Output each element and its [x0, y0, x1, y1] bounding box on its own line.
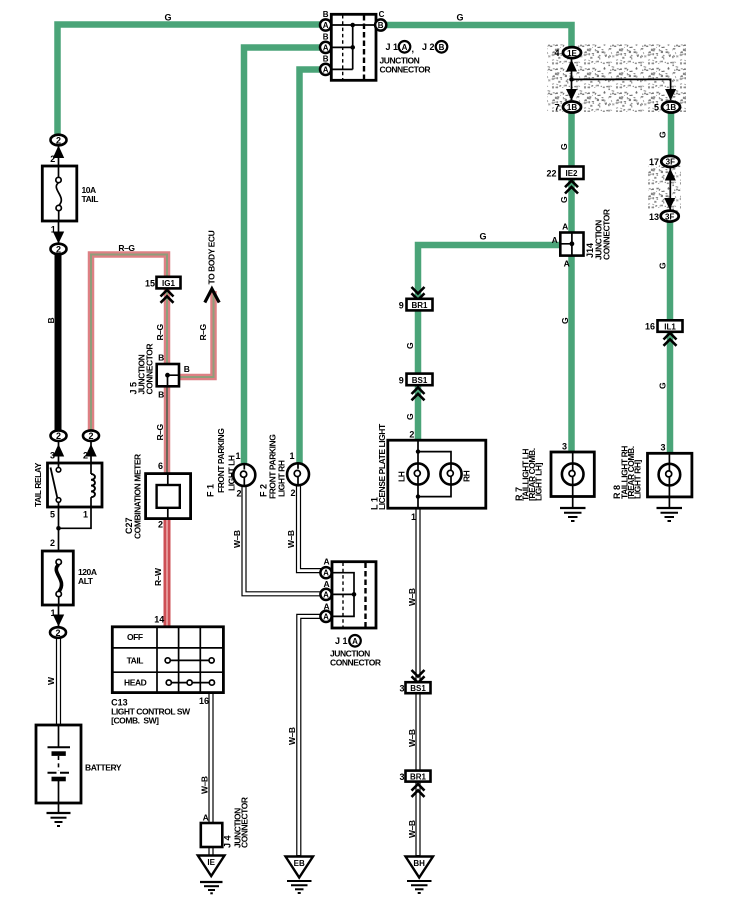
svg-text:22: 22 — [546, 169, 556, 179]
svg-text:1: 1 — [289, 451, 294, 461]
svg-text:C: C — [379, 10, 385, 19]
svg-text:B: B — [158, 353, 164, 363]
oval 1B left — [563, 102, 581, 113]
oval 2 above black wire — [51, 244, 67, 255]
svg-text:2: 2 — [409, 430, 414, 440]
svg-text:G: G — [560, 317, 570, 324]
arrow down above left 1B — [566, 89, 577, 101]
oval 1E — [563, 47, 581, 58]
wire thin relay pin5 to ALT — [58, 507, 60, 551]
pin A circle bottom3 — [320, 611, 331, 622]
pin A circle bottom1 — [320, 567, 331, 578]
svg-text:B: B — [323, 33, 329, 42]
svg-text:2: 2 — [55, 628, 60, 638]
wire G main top-left — [58, 25, 322, 137]
arrow down above 3F bottom — [664, 198, 675, 210]
svg-text:W–B: W–B — [407, 729, 417, 747]
wire G right rear column 1B to 3F — [668, 112, 675, 157]
pin A circle top1 — [320, 19, 331, 30]
svg-text:A: A — [323, 43, 329, 52]
svg-text:LICENSE PLATE LIGHT: LICENSE PLATE LIGHT — [377, 423, 387, 510]
junction node relay output — [56, 526, 61, 531]
svg-text:2: 2 — [56, 431, 61, 441]
wire R-G J5 to body ECU — [180, 291, 214, 377]
pin B circle right — [375, 19, 386, 30]
wire G license plate branch from J14 — [418, 245, 561, 441]
pin A circle top3 — [320, 64, 331, 75]
svg-text:5: 5 — [50, 510, 55, 520]
svg-text:2: 2 — [290, 488, 295, 498]
wire thin relay pin1 joining node — [59, 507, 92, 528]
arrow up into oval 2 — [53, 146, 64, 159]
chevron up below BS1 — [412, 388, 425, 401]
svg-text:2: 2 — [88, 431, 93, 441]
svg-text:A: A — [564, 259, 570, 269]
svg-text:IE: IE — [207, 858, 215, 867]
combination meter C27 — [146, 474, 191, 519]
wire R-G J5 to combination meter — [164, 387, 171, 475]
wire W-B front parking RH to J1 — [299, 486, 322, 571]
wire G left rear column 1B to taillight R7 — [568, 112, 575, 453]
svg-text:1: 1 — [411, 512, 416, 522]
svg-text:6: 6 — [158, 461, 163, 471]
svg-text:A: A — [323, 601, 329, 611]
svg-text:3: 3 — [50, 451, 55, 461]
svg-text:R–G: R–G — [198, 324, 208, 341]
svg-text:BR1: BR1 — [410, 772, 427, 781]
svg-text:A: A — [323, 579, 329, 589]
svg-text:IL1: IL1 — [664, 322, 676, 331]
wire G from junction connector B to right column — [385, 25, 572, 48]
light control switch C13 — [112, 627, 223, 693]
bulb RH in L1 — [440, 463, 461, 484]
svg-text:A: A — [552, 235, 558, 245]
svg-text:A: A — [323, 590, 329, 599]
ground below R8 — [657, 507, 683, 509]
wire thin relay pin2 lead — [90, 441, 92, 464]
svg-text:G: G — [405, 413, 415, 420]
svg-text:W–B: W–B — [232, 530, 242, 548]
bulb R7 — [562, 463, 584, 485]
arrow to body ECU — [205, 289, 219, 303]
svg-text:1: 1 — [235, 451, 240, 461]
svg-text:[COMB. SW]: [COMB. SW] — [111, 716, 159, 726]
svg-text:G: G — [657, 131, 667, 138]
ground below battery — [47, 812, 71, 814]
svg-text:1: 1 — [50, 608, 55, 618]
wire R-W combination meter to light control switch — [164, 519, 171, 628]
svg-text:TO BODY ECU: TO BODY ECU — [206, 230, 216, 284]
arrow up below 3F top — [665, 169, 676, 181]
connector box 3 BR1 — [406, 771, 431, 782]
bulb R8 — [659, 464, 681, 486]
wire B thick black battery feed — [55, 252, 62, 431]
arrow down out of ALT — [53, 615, 64, 627]
svg-text:G: G — [559, 143, 569, 150]
wire W alternator to battery — [56, 638, 61, 726]
arrow up below 1E — [566, 60, 577, 72]
junction node shielded area — [569, 77, 574, 82]
svg-text:5: 5 — [654, 103, 659, 113]
wire R-G from relay to IG1 — [91, 255, 167, 432]
svg-text:3: 3 — [399, 772, 404, 782]
svg-text:BH: BH — [413, 859, 425, 868]
svg-text:A: A — [323, 569, 329, 578]
svg-text:BS1: BS1 — [410, 684, 426, 693]
svg-text:B: B — [378, 21, 384, 30]
svg-text:J 1: J 1 — [386, 42, 399, 52]
svg-text:B: B — [439, 43, 445, 52]
hatched region near 3F connectors — [648, 166, 681, 212]
svg-text:G: G — [658, 382, 668, 389]
svg-text:A: A — [323, 612, 329, 621]
chevron down on license branch — [412, 287, 425, 300]
svg-text:CONNECTOR: CONNECTOR — [240, 797, 250, 848]
tail relay box — [48, 463, 103, 507]
oval 2 below G wire top-left — [51, 135, 67, 146]
svg-text:W–B: W–B — [407, 588, 417, 606]
arrow down out of fuse — [53, 232, 64, 244]
svg-text:,: , — [412, 44, 415, 54]
svg-text:15: 15 — [145, 279, 155, 289]
svg-text:TAIL: TAIL — [127, 655, 144, 665]
oval 1B right — [662, 102, 680, 113]
svg-text:LIGHT RH]: LIGHT RH] — [633, 459, 643, 499]
svg-text:IG1: IG1 — [162, 279, 175, 288]
switch TAIL row contacts — [170, 659, 209, 661]
svg-text:R–W: R–W — [153, 567, 163, 586]
pin A circle bottom2 — [320, 589, 331, 600]
taillight R8 box — [648, 453, 692, 497]
svg-text:14: 14 — [154, 615, 164, 625]
svg-text:CONNECTOR: CONNECTOR — [380, 65, 431, 75]
svg-text:3: 3 — [660, 443, 665, 453]
svg-text:BATTERY: BATTERY — [85, 763, 122, 773]
svg-text:R–G: R–G — [118, 243, 135, 253]
svg-text:W–B: W–B — [407, 820, 417, 838]
chevron up below BR1 bottom — [412, 784, 425, 797]
chevron up below IE2 — [565, 181, 578, 194]
svg-text:B: B — [184, 364, 190, 374]
hatched region near 1E/1B connectors — [547, 45, 686, 113]
fuse 120A ALT box — [42, 551, 73, 605]
svg-text:16: 16 — [199, 696, 209, 706]
wire W-B license plate light to ground BH — [415, 509, 420, 857]
wire thin fuse TAIL top lead — [58, 145, 60, 166]
switch HEAD row contacts — [171, 682, 210, 684]
svg-text:1: 1 — [51, 225, 56, 235]
svg-text:B: B — [46, 318, 56, 324]
wire W-B light control switch to J4 — [208, 693, 213, 856]
wire thin relay pin3 lead — [58, 441, 60, 464]
svg-text:3F: 3F — [665, 212, 674, 221]
junction connector J14 box — [560, 233, 583, 256]
svg-text:G: G — [559, 196, 569, 203]
oval 2 relay pin2 — [83, 430, 99, 441]
svg-text:CONNECTOR: CONNECTOR — [330, 658, 381, 668]
svg-text:LIGHT RH: LIGHT RH — [277, 460, 287, 497]
connector box 15 IG1 — [157, 277, 181, 289]
svg-text:2: 2 — [56, 136, 61, 146]
svg-text:G: G — [479, 232, 486, 242]
svg-text:W–B: W–B — [287, 727, 297, 745]
svg-text:TAIL RELAY: TAIL RELAY — [33, 462, 43, 507]
svg-text:13: 13 — [649, 212, 659, 222]
oval 2 above battery — [50, 627, 66, 638]
svg-text:2: 2 — [56, 245, 61, 255]
ground below R7 — [560, 507, 586, 509]
svg-text:BS1: BS1 — [412, 376, 428, 385]
connector box 9 BR1 — [407, 299, 433, 311]
svg-text:B: B — [158, 390, 164, 400]
svg-text:CONNECTOR: CONNECTOR — [145, 344, 155, 395]
chevron up below IL1 — [664, 333, 677, 346]
svg-text:ALT: ALT — [78, 576, 94, 586]
wire G right rear column 3F to taillight R8 — [667, 221, 674, 454]
svg-text:RH: RH — [461, 470, 471, 482]
svg-text:FRONT PARKING: FRONT PARKING — [216, 428, 226, 493]
svg-text:R–G: R–G — [155, 324, 165, 341]
svg-text:16: 16 — [645, 322, 655, 332]
svg-text:9: 9 — [399, 301, 404, 311]
svg-text:2: 2 — [158, 520, 163, 530]
connector box 3 BS1 — [406, 682, 431, 693]
svg-text:R–G: R–G — [155, 424, 165, 441]
oval 3F bottom — [661, 211, 679, 222]
svg-text:3: 3 — [399, 684, 404, 694]
svg-text:G: G — [405, 342, 415, 349]
taillight R7 box — [551, 452, 594, 497]
svg-text:1B: 1B — [567, 103, 577, 112]
svg-text:HEAD: HEAD — [124, 678, 147, 688]
connector box 16 IL1 — [658, 320, 683, 332]
svg-text:A: A — [203, 813, 209, 823]
arrow down above right 1B — [665, 89, 676, 101]
oval 3F top — [661, 156, 679, 167]
svg-text:1E: 1E — [567, 49, 577, 58]
svg-text:EB: EB — [294, 859, 305, 868]
license plate light L1 box — [388, 440, 486, 508]
svg-text:2: 2 — [50, 154, 55, 164]
battery box — [36, 725, 81, 803]
chevron down above BS1 bottom — [412, 670, 425, 683]
wire thin black 1E to 1B pair in shielded area — [571, 58, 573, 100]
svg-text:IE2: IE2 — [565, 169, 578, 178]
svg-text:W–B: W–B — [199, 776, 209, 794]
svg-text:A: A — [323, 557, 329, 567]
connector box 9 BS1 — [407, 374, 433, 386]
svg-text:A: A — [323, 65, 329, 74]
oval 2 relay pin3 — [51, 430, 67, 441]
svg-text:G: G — [456, 13, 463, 23]
wire thin fuse TAIL bottom lead — [58, 220, 60, 244]
svg-text:1B: 1B — [666, 103, 676, 112]
svg-text:A: A — [352, 637, 358, 646]
svg-text:LIGHT LH]: LIGHT LH] — [534, 462, 544, 501]
svg-text:B: B — [323, 55, 329, 64]
junction connector J5 box — [157, 364, 179, 386]
wire thin battery to ground — [58, 802, 60, 813]
front parking light LH bulb F1 — [233, 464, 255, 486]
bulb LH in L1 — [407, 463, 428, 484]
junction connector J1/J2 top box — [331, 14, 376, 80]
pin A circle top2 — [320, 42, 331, 53]
svg-text:3F: 3F — [666, 158, 675, 167]
svg-text:J 4: J 4 — [223, 835, 233, 848]
svg-text:B: B — [323, 10, 329, 19]
svg-text:G: G — [658, 262, 668, 269]
chevron up below IG1 — [161, 290, 174, 303]
ground triangle BH — [406, 857, 434, 878]
junction connector J1 bottom box — [332, 562, 376, 628]
svg-text:17: 17 — [649, 157, 659, 167]
wire G second row to front parking LH — [244, 48, 321, 464]
svg-text:W–B: W–B — [286, 530, 296, 548]
svg-text:G: G — [164, 13, 171, 23]
wire R-G IG1 to J5 — [164, 288, 171, 365]
svg-text:J 1: J 1 — [335, 636, 348, 646]
wire W-B front parking LH to J1 — [244, 486, 322, 594]
svg-text:COMBINATION METER: COMBINATION METER — [132, 454, 142, 539]
svg-text:A: A — [323, 21, 329, 30]
svg-text:A: A — [402, 43, 408, 52]
svg-text:4: 4 — [554, 48, 559, 58]
connector box 22 IE2 — [560, 167, 584, 180]
fuse 10A TAIL box — [42, 166, 77, 221]
svg-text:BR1: BR1 — [411, 301, 428, 310]
svg-text:J 2: J 2 — [422, 42, 435, 52]
ground triangle IE — [198, 856, 225, 877]
svg-text:2: 2 — [236, 489, 241, 499]
svg-text:OFF: OFF — [127, 632, 143, 642]
svg-text:2: 2 — [50, 538, 55, 548]
wire thin black 3F to 3F — [669, 167, 671, 210]
junction connector J4 box — [201, 823, 223, 847]
svg-text:F 1: F 1 — [206, 484, 216, 497]
svg-text:A: A — [562, 222, 568, 232]
wire thin ALT to oval — [58, 605, 60, 628]
svg-text:7: 7 — [554, 103, 559, 113]
svg-text:2: 2 — [83, 451, 88, 461]
svg-text:3: 3 — [562, 442, 567, 452]
svg-text:CONNECTOR: CONNECTOR — [602, 209, 612, 260]
arrow up relay pin2 — [85, 444, 96, 457]
svg-text:9: 9 — [399, 375, 404, 385]
ground triangle EB — [286, 857, 314, 878]
wire G third row to front parking RH — [300, 70, 321, 465]
svg-text:LH: LH — [396, 471, 406, 482]
svg-text:1: 1 — [83, 510, 88, 520]
front parking light RH bulb F2 — [287, 463, 309, 485]
arrow up relay pin3 — [53, 444, 64, 457]
svg-text:TAIL: TAIL — [82, 194, 99, 204]
wire W-B J1 to ground EB — [299, 616, 322, 856]
